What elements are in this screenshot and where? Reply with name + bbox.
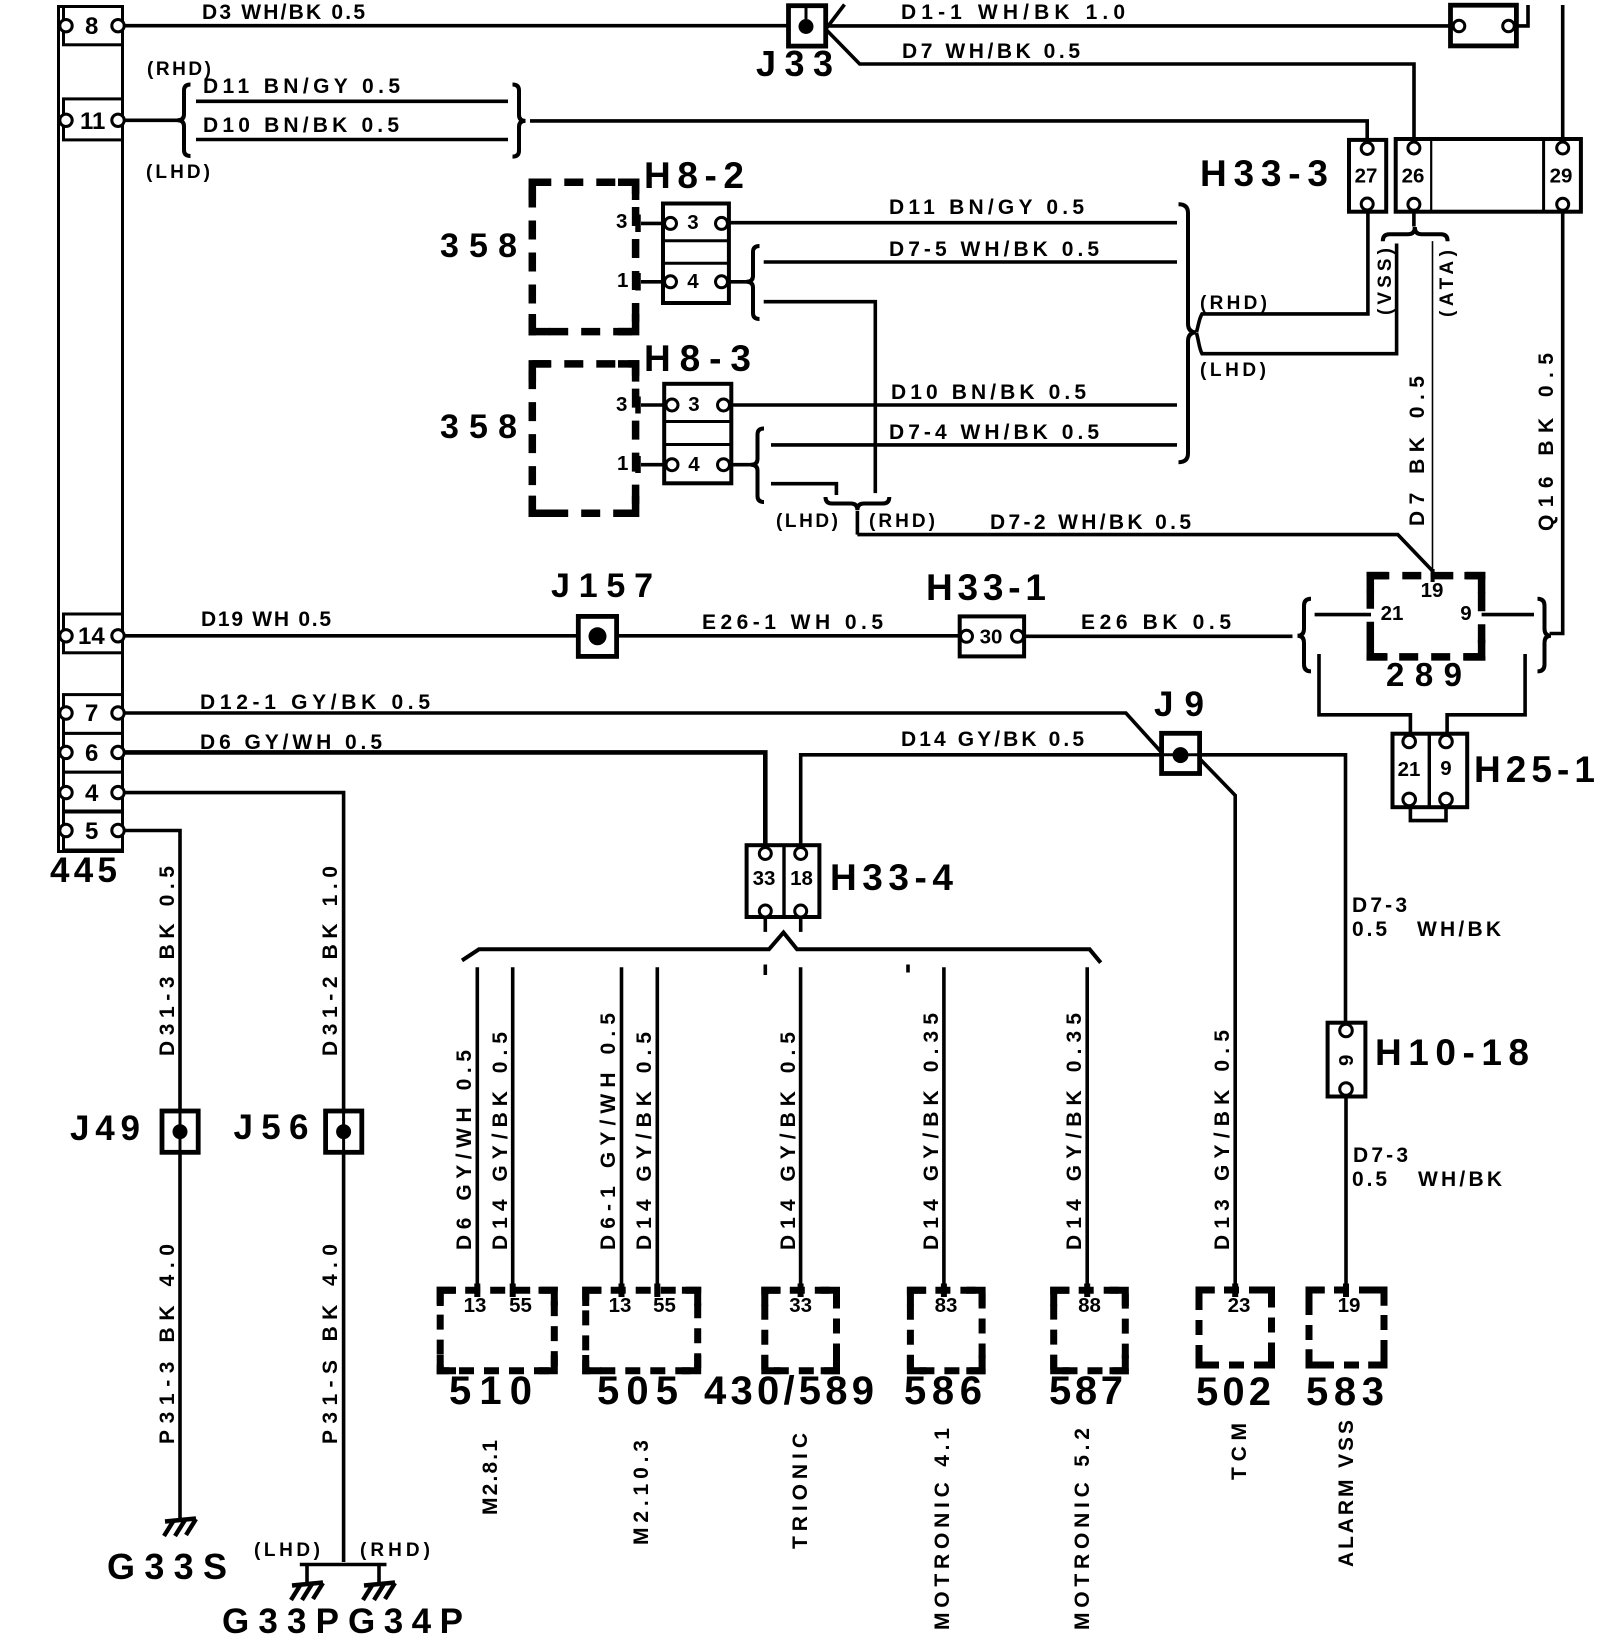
svg-text:9: 9	[1460, 602, 1471, 625]
wire D3 WH/BK 0.5 from 445 pin 8 to J33	[123, 24, 791, 28]
wire D14 GY/BK 0.5 from H33-4 pin 18 through J9 to H10-18	[801, 755, 1346, 1023]
wire combined D11/D10 to H33-3 pin 27	[530, 121, 1367, 140]
svg-text:586: 586	[904, 1369, 982, 1413]
svg-text:289: 289	[1386, 656, 1462, 693]
wire D11 BN/GY 0.5 from H8-2 to brace	[729, 221, 1177, 225]
svg-text:MOTRONIC 4.1: MOTRONIC 4.1	[931, 1428, 954, 1630]
wire U-loop under H25-1	[1410, 807, 1446, 820]
wire H8-2 pin 1 tick	[641, 280, 663, 284]
svg-text:29: 29	[1550, 165, 1573, 188]
svg-text:D7-2 WH/BK 0.5: D7-2 WH/BK 0.5	[990, 511, 1191, 534]
wire H8-2 lower arm down to LHD/RHD merge	[764, 302, 876, 493]
svg-text:ALARM VSS: ALARM VSS	[1335, 1420, 1358, 1567]
svg-text:TCM: TCM	[1228, 1423, 1251, 1480]
445 pin 8 box	[64, 7, 123, 45]
wire D10 BN/BK 0.5 from H8-3 to brace	[731, 403, 1177, 407]
wire D6 GY/WH 0.5 from 445 pin 6 to H33-4 pin 33	[123, 752, 766, 845]
wire H8-2 pin 3 tick	[641, 222, 663, 226]
wire D6-1 GY/WH 0.5 to 505 pin 13	[620, 967, 624, 1290]
svg-text:J56: J56	[234, 1108, 309, 1147]
wire from 445 pin 5 down to J49	[123, 831, 181, 1112]
wire E26-1 WH 0.5 from J157 to H33-1	[617, 634, 960, 638]
svg-text:(RHD): (RHD)	[1200, 293, 1267, 314]
connector H25-1 box	[1393, 734, 1468, 808]
connector H33-4 box	[747, 845, 820, 917]
wire (RHD) branch to H33-3 pin 27 bottom	[1197, 212, 1368, 332]
svg-text:19: 19	[1421, 579, 1444, 602]
svg-text:55: 55	[653, 1294, 676, 1317]
svg-text:J49: J49	[70, 1109, 140, 1148]
brace left of D11/D10 pair	[178, 85, 191, 157]
svg-text:14: 14	[78, 623, 105, 650]
svg-text:30: 30	[980, 626, 1003, 649]
wire from H8-2 pin 4 to small brace	[729, 280, 747, 284]
wire D14 GY/BK 0.5 to 430/589 pin 33	[799, 967, 803, 1290]
svg-text:19: 19	[1338, 1294, 1361, 1317]
connector at top right	[1451, 5, 1517, 46]
wire 289 pin 9 lead	[1482, 613, 1534, 617]
wire D13 GY/BK 0.5 from J9 to 502	[1200, 759, 1236, 1290]
svg-text:7: 7	[85, 700, 98, 727]
component 586 dashed box	[910, 1290, 982, 1371]
svg-text:21: 21	[1381, 602, 1404, 625]
svg-text:8: 8	[85, 13, 98, 40]
svg-text:4: 4	[688, 453, 700, 476]
junction J56	[326, 1111, 362, 1152]
wire D14 GY/BK 0.35 to 587 pin 88	[1085, 967, 1089, 1290]
brace left of 289	[1298, 599, 1312, 672]
svg-text:3: 3	[616, 210, 627, 233]
wire entry stub into 289 pin 19	[1431, 569, 1435, 582]
wire from 445 pin 4 down to J56	[123, 793, 344, 1111]
wire H33-4 pin 18 stub to fan brace	[799, 917, 803, 932]
svg-text:88: 88	[1078, 1294, 1101, 1317]
brace gathering D11/D7-5/D10/D7-4	[1179, 204, 1197, 462]
svg-text:13: 13	[464, 1294, 487, 1317]
ground G33P symbol	[291, 1583, 323, 1601]
wire stub below merge brace	[856, 511, 860, 535]
junction J9	[1162, 733, 1200, 773]
445 pin 4 box	[64, 772, 123, 811]
fan-out brace over engine ECU wires	[462, 933, 1101, 963]
svg-text:6: 6	[85, 740, 98, 767]
svg-text:26: 26	[1402, 165, 1425, 188]
wire drop to G34P	[377, 1565, 381, 1583]
wire 289 left fork down to H25-1 pin 21	[1319, 654, 1410, 735]
svg-text:23: 23	[1228, 1294, 1251, 1317]
svg-text:4: 4	[85, 780, 99, 807]
svg-text:27: 27	[1355, 165, 1378, 188]
wire (ATA) D7 BK 0.5 thin line to 289 pin 19	[1432, 241, 1434, 569]
brace closing D11/D10 pair	[513, 85, 526, 157]
wire stub tick below fan brace left of 430/589	[763, 965, 767, 976]
svg-text:358: 358	[440, 408, 517, 446]
svg-text:H33-3: H33-3	[1200, 153, 1328, 194]
svg-text:J33: J33	[756, 43, 833, 84]
svg-text:D3 WH/BK 0.5: D3 WH/BK 0.5	[202, 1, 365, 24]
svg-text:33: 33	[789, 1294, 812, 1317]
svg-text:445: 445	[50, 851, 117, 890]
wire D6 GY/WH 0.5 to 510 pin 13	[475, 967, 479, 1290]
wire H8-3 lower arm (LHD) with hook	[771, 484, 836, 495]
wire P31-5 BK 4.0 from J56 to ground split	[342, 1152, 346, 1562]
wire E26 BK 0.5 from H33-1 to 289 brace	[1024, 634, 1292, 638]
svg-text:(RHD): (RHD)	[869, 511, 935, 532]
svg-text:1: 1	[617, 269, 628, 292]
component 587 dashed box	[1054, 1290, 1126, 1371]
svg-text:H33-1: H33-1	[926, 567, 1046, 608]
svg-text:18: 18	[790, 867, 813, 890]
svg-text:3: 3	[688, 393, 699, 416]
connector H8-3 box	[664, 384, 731, 484]
wire H8-3 pin 3 tick	[641, 403, 664, 407]
brace under H33-3 pin 26	[1383, 227, 1448, 241]
svg-text:0.5: 0.5	[1352, 1168, 1387, 1191]
svg-text:83: 83	[935, 1294, 958, 1317]
component 583 dashed box	[1309, 1290, 1384, 1365]
wire Q16 BK 0.5 from top edge to pin 29	[1561, 5, 1565, 140]
component 358 dashed box (H8-2)	[532, 182, 635, 331]
junction J33	[789, 6, 826, 46]
svg-text:(LHD): (LHD)	[1200, 360, 1266, 381]
svg-text:H8-2: H8-2	[644, 155, 744, 196]
svg-text:21: 21	[1398, 758, 1421, 781]
wire D7-2 WH/BK 0.5 to 289 pin 19	[857, 535, 1432, 577]
svg-text:WH/BK: WH/BK	[1418, 1168, 1502, 1191]
wire entry stubs into ECU dashed boxes	[474, 1284, 480, 1298]
svg-text:587: 587	[1049, 1369, 1123, 1413]
wire D7-3 0.5 WH/BK from H10-18 to 583 pin 19	[1344, 1097, 1348, 1290]
svg-text:583: 583	[1306, 1370, 1384, 1414]
svg-text:13: 13	[609, 1294, 632, 1317]
wire hook right of top-right connector	[1516, 5, 1528, 26]
component 430/589 dashed box	[765, 1290, 837, 1371]
connector H10-18 box	[1328, 1023, 1366, 1097]
wire from 445 pin 11 to brace	[123, 119, 183, 123]
svg-text:358: 358	[440, 227, 517, 265]
svg-text:3: 3	[687, 211, 698, 234]
wire from H8-3 pin 4 to small brace	[731, 463, 751, 467]
wire D7-5 WH/BK 0.5 to brace	[764, 260, 1177, 264]
H33-3 pins 26/29 box	[1396, 139, 1581, 212]
svg-text:502: 502	[1196, 1370, 1271, 1414]
brace at H8-2 pin 4	[747, 246, 760, 319]
wire D14 GY/BK 0.35 to 586 pin 83	[942, 967, 946, 1290]
connector H8-2 box	[663, 204, 729, 304]
svg-text:4: 4	[687, 270, 699, 293]
445 pin 7 box	[64, 695, 123, 734]
ground G34P symbol	[363, 1583, 395, 1601]
svg-text:510: 510	[449, 1369, 532, 1413]
junction J49	[162, 1111, 198, 1152]
svg-text:(LHD): (LHD)	[254, 1540, 320, 1561]
wire D14 GY/BK 0.5 to 505 pin 55	[655, 967, 659, 1290]
svg-text:WH/BK: WH/BK	[1417, 918, 1501, 941]
brace LHD/RHD merge	[826, 497, 890, 510]
svg-text:D19 WH 0.5: D19 WH 0.5	[201, 608, 331, 631]
svg-text:(LHD): (LHD)	[146, 162, 210, 183]
svg-text:(RHD): (RHD)	[360, 1540, 430, 1561]
wire drop to G33P	[305, 1565, 309, 1583]
445 pin 5 box	[64, 812, 123, 850]
wire ground split bar	[300, 1563, 387, 1567]
wire D19 WH 0.5 from 445 pin 14 to J157	[123, 634, 579, 638]
svg-text:3: 3	[616, 393, 627, 416]
wire P31-3 BK 4.0 from J49 to ground G33S	[178, 1152, 182, 1519]
445 pin 6 box	[64, 733, 123, 772]
brace right of 289	[1538, 599, 1552, 672]
svg-text:0.5: 0.5	[1352, 918, 1387, 941]
wire H8-3 pin 1 tick	[641, 463, 664, 467]
svg-text:E26-1 WH 0.5: E26-1 WH 0.5	[702, 611, 883, 634]
wire D12-1 GY/BK 0.5 from 445 pin 7 to J9	[123, 713, 1163, 754]
svg-text:(RHD): (RHD)	[147, 59, 211, 80]
svg-text:505: 505	[597, 1369, 678, 1413]
wire stub tick below fan brace left of 586	[906, 965, 910, 973]
svg-text:H33-4: H33-4	[830, 857, 953, 898]
445 pin 14 box	[64, 614, 123, 653]
svg-text:9: 9	[1440, 757, 1451, 780]
wire D11 BN/GY 0.5 (left segment)	[196, 100, 508, 104]
wire D14 GY/BK 0.5 to 510 pin 55	[511, 967, 515, 1290]
wire stub diagonal above J33	[827, 5, 845, 28]
445 pin 11 box	[64, 99, 123, 140]
svg-text:D7 BK 0.5: D7 BK 0.5	[1406, 376, 1429, 526]
component 505 dashed box	[586, 1290, 698, 1371]
wire D7 WH/BK 0.5 from J33 to H33-3 pin 26	[826, 30, 1414, 141]
ground G33S symbol	[164, 1519, 196, 1537]
wire D7-4 WH/BK 0.5 to brace	[771, 443, 1177, 447]
svg-text:55: 55	[509, 1294, 532, 1317]
svg-text:E26 BK 0.5: E26 BK 0.5	[1081, 611, 1231, 634]
wire H33-4 pin 33 stub to fan brace	[763, 917, 767, 932]
svg-text:D7-3: D7-3	[1353, 1144, 1408, 1167]
component 502 dashed box	[1199, 1290, 1272, 1365]
svg-text:(LHD): (LHD)	[776, 511, 838, 532]
svg-text:H8-3: H8-3	[644, 338, 751, 379]
svg-text:11: 11	[80, 108, 105, 135]
wire 289 right fork down to H25-1 pin 9	[1447, 654, 1525, 735]
svg-text:9: 9	[1335, 1055, 1358, 1066]
svg-text:D7-3: D7-3	[1352, 894, 1407, 917]
H33-3 pin 27 box	[1349, 140, 1386, 212]
wire D1-1 WH/BK 1.0 from J33 to top-right connector	[826, 24, 1451, 28]
wire D10 BN/BK 0.5 (left segment)	[196, 138, 508, 142]
svg-text:D7 WH/BK 0.5: D7 WH/BK 0.5	[902, 40, 1080, 63]
svg-text:1: 1	[617, 452, 628, 475]
wire Q16 BK 0.5 from pin 29 down to 289 right brace	[1550, 212, 1563, 634]
svg-text:H25-1: H25-1	[1474, 749, 1595, 790]
wire stub pin 26 to brace	[1412, 212, 1416, 227]
component 358 dashed box (H8-3)	[532, 364, 635, 513]
svg-text:M2.8.1: M2.8.1	[479, 1440, 502, 1515]
component 289 dashed box	[1370, 576, 1481, 657]
svg-text:33: 33	[753, 867, 776, 890]
wire (LHD) branch to VSS line	[1197, 244, 1397, 354]
svg-text:5: 5	[85, 818, 98, 845]
brace at H8-3 pin 4	[751, 429, 764, 503]
connector strip 445 outer body	[59, 7, 123, 852]
component 510 dashed box	[440, 1290, 554, 1371]
connector H33-1 pin 30 box	[960, 616, 1024, 656]
junction J157	[578, 616, 616, 656]
wire 289 pin 21 lead	[1315, 613, 1371, 617]
